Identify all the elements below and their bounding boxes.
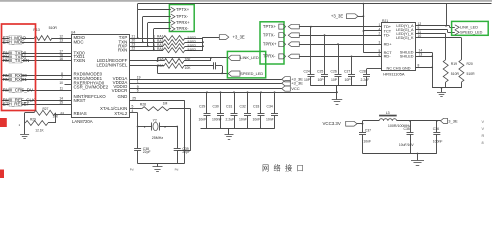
capacitor C27 10P	[344, 56, 355, 86]
resistor RA2 51R2 on row 20	[130, 39, 204, 45]
svg-text:R19: R19	[451, 62, 457, 66]
svg-text:10P: 10P	[318, 78, 325, 82]
svg-text:NC CHS GND: NC CHS GND	[386, 67, 410, 71]
resistor RA3 51R2 on row 23	[130, 43, 204, 49]
capacitor C28 2.2uF	[360, 69, 382, 86]
svg-text:SPEED_LED: SPEED_LED	[240, 71, 263, 76]
svg-text:TPRX-: TPRX-	[263, 54, 276, 59]
connector right/bottom pin names	[386, 24, 413, 71]
svg-text:C33: C33	[253, 105, 259, 109]
sheet top border	[0, 0, 492, 2]
wire filter ground bus	[363, 153, 437, 155]
resistor R19 510R	[443, 60, 459, 82]
svg-text:+3_3E: +3_3E	[233, 35, 245, 40]
svg-text:LED(G)_K: LED(G)_K	[396, 36, 414, 40]
power port +3_3E from VDD pin 19	[130, 76, 304, 82]
wire + net label RMII_RXD1	[2, 76, 71, 82]
svg-text:R13: R13	[33, 28, 39, 32]
title 网络接口	[262, 164, 304, 173]
svg-text:R: R	[482, 134, 485, 138]
wire XTAL2 to crystal left	[130, 109, 138, 149]
wire LED2 row	[130, 65, 165, 67]
svg-text:51R2: 51R2	[188, 48, 196, 52]
svg-text:LINK_LED: LINK_LED	[460, 26, 478, 30]
capacitor C32 10nF	[239, 91, 251, 128]
svg-text:TPRX+: TPRX+	[176, 20, 190, 25]
capacitor C30 100nF	[212, 91, 224, 128]
ground below R29	[20, 123, 29, 139]
svg-text:10uF/16V: 10uF/16V	[399, 143, 414, 147]
green port group box TPTX right	[260, 22, 284, 64]
resistor RA4 51R2 on row 22	[130, 47, 204, 53]
svg-text:2: 2	[379, 32, 381, 36]
capacitor C33 10nF	[253, 91, 265, 128]
svg-text:接: 接	[285, 164, 292, 173]
chip name LAN8720A	[72, 119, 93, 124]
svg-text:Pd: Pd	[130, 167, 134, 171]
svg-text:10P: 10P	[345, 78, 352, 82]
resistor R28 1M	[140, 102, 169, 111]
capacitor C25 10P	[317, 34, 328, 86]
wire + net label RMII_CRS_DV	[2, 87, 71, 93]
svg-text:3_3E: 3_3E	[448, 118, 458, 123]
svg-text:13: 13	[59, 39, 63, 43]
svg-text:8: 8	[482, 141, 484, 145]
svg-text:SPEED_LED: SPEED_LED	[460, 31, 483, 35]
power port +3_3E from VDD pin 1	[130, 79, 304, 85]
svg-text:ETH_MDC: ETH_MDC	[3, 40, 26, 45]
svg-text:RA4: RA4	[157, 47, 164, 51]
wire R27/R29 right tie to RBIAS	[55, 111, 72, 123]
wire LED1 row	[130, 60, 165, 62]
inductor L3 100R/100MHz	[379, 111, 411, 128]
svg-text:HR911105A: HR911105A	[383, 71, 405, 76]
svg-text:25MHz: 25MHz	[152, 136, 164, 140]
svg-text:C31: C31	[226, 105, 232, 109]
svg-text:LAN8720A: LAN8720A	[72, 119, 93, 124]
svg-text:1: 1	[144, 125, 146, 129]
svg-text:R28: R28	[140, 102, 146, 106]
wire GND pin trace	[130, 97, 185, 164]
resistor R20 510R	[459, 60, 475, 82]
svg-text:C30: C30	[213, 105, 219, 109]
wire decap bottom bus	[201, 128, 275, 130]
wire shield pins	[415, 49, 433, 88]
svg-text:RMII_CRS_DV: RMII_CRS_DV	[3, 88, 33, 93]
svg-text:10: 10	[418, 34, 422, 38]
capacitor C39 22pF	[174, 147, 190, 164]
svg-text:网: 网	[262, 164, 269, 173]
port TPRX- (RJ45 side) with wire	[263, 54, 382, 59]
op-amp U4 body	[71, 30, 130, 117]
port SPEED_LED right	[453, 30, 483, 35]
wire +3.3E vertical	[363, 3, 365, 53]
wire + net label RMII_TXD1	[2, 53, 71, 59]
wire top rail to LED anode	[445, 4, 447, 27]
svg-text:RJ1: RJ1	[382, 19, 388, 23]
svg-text:R20: R20	[467, 62, 473, 66]
svg-text:100nF: 100nF	[433, 139, 443, 143]
pad label Pd right	[175, 167, 179, 171]
pad label Pd left	[130, 167, 134, 171]
svg-text:NRST: NRST	[74, 98, 86, 103]
svg-text:22pF: 22pF	[182, 150, 190, 154]
wire XTAL1 row	[130, 105, 142, 109]
svg-text:510R: 510R	[49, 26, 58, 30]
wire LED(G)_K pin 10	[415, 34, 461, 60]
svg-text:15: 15	[59, 101, 63, 105]
svg-text:C28: C28	[360, 69, 366, 73]
svg-text:TPTX-: TPTX-	[263, 33, 276, 38]
port TPRX+ (RJ45 side) with wire	[263, 42, 382, 47]
wire LED(G)_A pin 9	[415, 26, 453, 33]
svg-text:C26: C26	[331, 69, 337, 73]
svg-text:L3: L3	[386, 111, 390, 115]
svg-text:6: 6	[137, 89, 139, 93]
port SPEED_LED mid	[228, 71, 263, 76]
port TPRX+ (PHY side) with wire	[147, 20, 190, 47]
frame text VVR8	[482, 120, 485, 145]
red highlight box around RMII net labels	[2, 24, 36, 111]
svg-text:口: 口	[297, 164, 304, 173]
wire LED(Y)_A pin 12	[415, 22, 453, 28]
svg-text:VCC: VCC	[291, 86, 300, 91]
svg-text:C34: C34	[267, 105, 273, 109]
power port VCC from VDD pin 9	[130, 85, 300, 91]
svg-text:ETH_RESET: ETH_RESET	[3, 102, 30, 107]
chip right pin names	[97, 35, 128, 116]
green port group box LINK/SPEED mid	[227, 51, 265, 78]
ground below crystal	[153, 164, 163, 172]
svg-text:C32: C32	[240, 105, 246, 109]
wire RA merge vertical	[202, 37, 204, 50]
chip left pin names	[74, 35, 109, 116]
svg-text:C25: C25	[317, 69, 323, 73]
ground below R19/R20	[437, 87, 446, 97]
svg-text:22pF: 22pF	[143, 150, 151, 154]
svg-text:10nF: 10nF	[239, 118, 247, 122]
svg-text:U4: U4	[71, 30, 76, 34]
wire + net label RMII_REF_CLK	[2, 97, 71, 103]
wire TCT	[363, 30, 382, 32]
svg-text:7: 7	[61, 76, 63, 80]
svg-text:LINK_LED: LINK_LED	[240, 55, 259, 60]
svg-text:6: 6	[379, 53, 381, 57]
svg-text:RXN: RXN	[118, 47, 127, 52]
power flag 3_3E	[441, 118, 458, 123]
svg-text:510R: 510R	[467, 72, 476, 76]
svg-text:10: 10	[59, 81, 63, 85]
svg-text:16: 16	[59, 57, 63, 61]
svg-text:LED2/NINTSEL: LED2/NINTSEL	[97, 63, 128, 68]
wire LINK_LED line	[157, 57, 229, 62]
port TPRX- (PHY side) with wire	[153, 26, 189, 51]
wire top rail from TXP	[138, 4, 492, 10]
connector left pin names	[379, 23, 393, 59]
svg-text:R27: R27	[43, 107, 49, 111]
svg-text:RMII_TX_EN: RMII_TX_EN	[3, 58, 30, 63]
wire XTAL1 to crystal right	[169, 109, 190, 151]
port TPTX- (RJ45 side) with wire	[263, 33, 382, 38]
svg-text:RD+: RD+	[384, 42, 393, 47]
svg-text:XTAL2: XTAL2	[114, 111, 128, 116]
svg-text:MDC: MDC	[74, 39, 84, 44]
power port VCC3.3V	[323, 121, 358, 126]
svg-text:络: 络	[274, 164, 281, 173]
resistor R2A 10K	[157, 63, 191, 70]
svg-text:13: 13	[419, 53, 423, 57]
svg-text:+3_3E: +3_3E	[291, 81, 303, 86]
wire + net label RMII_TXD0	[2, 50, 71, 56]
svg-text:VCC3.3V: VCC3.3V	[323, 121, 341, 126]
svg-text:RBIAS: RBIAS	[74, 111, 87, 116]
capacitor C29 10nF	[199, 91, 211, 128]
svg-text:Pd: Pd	[175, 167, 179, 171]
wire CHS GND pin 8	[415, 64, 432, 68]
resistor R13 510R	[33, 26, 71, 40]
svg-text:C35: C35	[404, 127, 410, 131]
wire crystal ground bus	[138, 163, 185, 165]
svg-text:Y2: Y2	[153, 118, 157, 122]
svg-text:SHILED: SHILED	[400, 55, 414, 59]
wire + net label RMII_RXD0	[2, 72, 71, 78]
capacitor C26 10P	[331, 43, 342, 86]
capacitor C37 10nF	[359, 124, 371, 154]
connector name HR911105A	[383, 71, 405, 76]
svg-text:GND: GND	[118, 94, 128, 99]
wire + net label ETH_MDIO	[2, 34, 63, 40]
capacitor C38 22pF	[134, 147, 150, 164]
resistor RA1 51R2 on row 21	[130, 34, 204, 40]
svg-text:25: 25	[132, 97, 136, 101]
wire L3 out	[397, 120, 441, 122]
green port group box LINK/SPEED right	[452, 21, 489, 35]
svg-text:10nF: 10nF	[266, 118, 274, 122]
capacitor C31 2.2uF	[226, 91, 238, 128]
red square marker upper	[0, 118, 7, 127]
svg-text:+3_3E: +3_3E	[331, 13, 343, 18]
svg-text:RD-: RD-	[384, 54, 392, 59]
red square marker lower	[0, 170, 4, 179]
wire SPEED_LED line	[157, 65, 229, 74]
wire + net label ETH_RESET	[2, 101, 71, 107]
wire LED(Y)_K pin 11	[415, 30, 446, 60]
crystal Y2 25MHz	[137, 118, 178, 148]
svg-text:TD-: TD-	[384, 33, 391, 38]
svg-text:TPTX+: TPTX+	[263, 24, 277, 29]
wire VDDCR rail	[130, 89, 338, 93]
svg-text:C27: C27	[344, 69, 350, 73]
svg-text:10P: 10P	[331, 78, 338, 82]
capacitor C36 100nF	[433, 121, 443, 154]
resistor R1A 10K	[157, 57, 191, 63]
wire VCC3.3V node	[357, 121, 379, 125]
ground below decap bus	[225, 129, 234, 140]
svg-text:10nF: 10nF	[363, 139, 371, 143]
svg-text:TPTX-: TPTX-	[176, 14, 189, 19]
port LINK_LED right	[453, 25, 478, 30]
resistor R29 12.1K	[19, 117, 56, 132]
svg-text:8: 8	[418, 64, 420, 68]
svg-text:24: 24	[60, 111, 64, 115]
power flag +3_3E top	[331, 13, 364, 18]
svg-text:2.2uF: 2.2uF	[226, 118, 235, 122]
svg-text:1M: 1M	[163, 102, 168, 106]
port TPTX+ (RJ45 side) with wire	[263, 24, 382, 29]
svg-text:510R: 510R	[451, 72, 460, 76]
svg-text:10nF: 10nF	[199, 118, 207, 122]
wire R27/R29 left tie	[24, 113, 26, 123]
green port group box TPTX left	[169, 5, 194, 32]
svg-text:C36: C36	[433, 127, 439, 131]
svg-text:1: 1	[379, 23, 381, 27]
capacitor C24 10P	[304, 26, 315, 86]
svg-text:VDDCR: VDDCR	[112, 88, 128, 93]
resistor R27 10K	[25, 107, 59, 119]
capacitor C35 10uF/16V	[399, 121, 414, 154]
ground at VDDCR rail end	[332, 86, 343, 105]
wire R19/R20 bottoms	[432, 82, 461, 88]
svg-text:22: 22	[132, 47, 136, 51]
svg-text:4: 4	[132, 109, 134, 113]
port TPTX+ (PHY side) with wire	[137, 7, 190, 39]
wire RXER stub pin 10	[59, 81, 71, 85]
capacitor on LED2 line	[184, 62, 223, 73]
port LINK_LED mid	[228, 55, 259, 60]
svg-text:C29: C29	[199, 105, 205, 109]
capacitor C34 10nF	[266, 91, 278, 128]
port TPTX- (PHY side) with wire	[142, 14, 189, 43]
svg-text:2.2uF: 2.2uF	[361, 78, 370, 82]
wire + net label ETH_MDC	[2, 39, 71, 45]
svg-text:TPTX+: TPTX+	[176, 7, 190, 12]
svg-text:TPRX-: TPRX-	[176, 26, 189, 31]
svg-text:1: 1	[137, 79, 139, 83]
wire C24-C28 bottom bus	[311, 86, 367, 93]
svg-text:10nF: 10nF	[253, 118, 261, 122]
svg-text:RMII_RXD1: RMII_RXD1	[3, 77, 28, 82]
svg-text:R29: R29	[30, 117, 36, 121]
connector RJ1 body	[382, 19, 416, 71]
svg-text:100nF: 100nF	[212, 118, 222, 122]
svg-text:3: 3	[379, 41, 381, 45]
svg-text:C37: C37	[365, 128, 371, 132]
svg-text:10K: 10K	[185, 66, 192, 70]
svg-text:TXEN: TXEN	[74, 58, 86, 63]
svg-text:CSR_DV/MODE2: CSR_DV/MODE2	[74, 85, 109, 90]
svg-text:10P: 10P	[304, 78, 311, 82]
wire R1A out loop	[184, 58, 211, 61]
svg-text:11: 11	[60, 87, 64, 91]
svg-text:C24: C24	[304, 69, 310, 73]
svg-text:12.1K: 12.1K	[35, 128, 44, 132]
svg-text:2: 2	[164, 125, 166, 129]
wire RCT	[363, 52, 381, 54]
power flag +3_3E after RA	[203, 35, 245, 40]
svg-text:TPRX+: TPRX+	[263, 42, 277, 47]
wire + net label RMII_TX_EN	[2, 57, 71, 63]
ground below filter	[411, 153, 424, 166]
